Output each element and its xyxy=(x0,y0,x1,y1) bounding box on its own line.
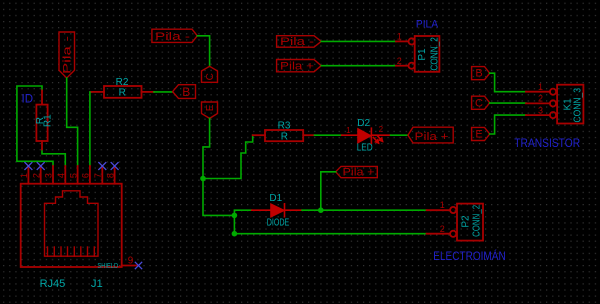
svg-text:B: B xyxy=(475,68,482,80)
svg-text:Pila -: Pila - xyxy=(155,31,190,43)
svg-text:RJ45: RJ45 xyxy=(40,278,66,290)
svg-text:ID: ID xyxy=(22,92,34,106)
global label Pila - (vertical, top-left) xyxy=(59,32,75,78)
svg-text:R3: R3 xyxy=(278,120,291,131)
connector J1 RJ45 xyxy=(21,166,138,267)
wire Pila - to C label xyxy=(197,36,209,67)
svg-text:1: 1 xyxy=(346,126,351,135)
wire C to K1 pin 2 xyxy=(490,102,526,104)
svg-text:R1: R1 xyxy=(43,114,54,127)
svg-text:E: E xyxy=(205,104,216,111)
global label Pila + (right of LED, pointing left) xyxy=(408,127,453,143)
svg-text:B: B xyxy=(182,85,190,99)
svg-text:LED: LED xyxy=(357,143,373,154)
wire R3 to D2 xyxy=(315,134,342,136)
svg-text:Pila +: Pila + xyxy=(280,60,314,72)
svg-text:2: 2 xyxy=(379,125,384,134)
wire Pila + to P1 pin 2 xyxy=(321,65,396,67)
svg-text:2: 2 xyxy=(31,173,41,178)
svg-text:R: R xyxy=(119,88,126,99)
global label Pila + (bottom, pointing left) xyxy=(336,166,378,177)
svg-text:4: 4 xyxy=(56,173,66,178)
svg-text:2: 2 xyxy=(397,56,402,66)
resistor R3 xyxy=(253,130,315,141)
svg-text:9: 9 xyxy=(128,256,134,267)
svg-text:D2: D2 xyxy=(357,118,370,129)
svg-text:2: 2 xyxy=(538,94,543,104)
svg-text:C: C xyxy=(205,73,216,80)
svg-text:P2: P2 xyxy=(461,215,472,228)
diode D2 LED xyxy=(342,128,391,143)
wire D2 to Pila + label xyxy=(391,134,408,136)
global label C (pointing up) xyxy=(202,66,218,82)
global label Pila - (pointing right, to P1 pin1) xyxy=(277,36,322,48)
global label Pila + (pointing right, to P1 pin2) xyxy=(277,60,322,72)
global label C (right side) xyxy=(472,96,490,109)
global label B (right side, pointing right) xyxy=(472,67,490,80)
svg-text:CONN_2: CONN_2 xyxy=(472,205,483,237)
wire junction to D1 anode xyxy=(234,210,251,215)
no-connect X on J1 pin 9 SHIELD xyxy=(135,262,141,268)
svg-text:CONN_2: CONN_2 xyxy=(429,37,440,71)
svg-text:1: 1 xyxy=(440,200,445,210)
wire junction down to bottom rail xyxy=(233,215,235,233)
no-connect X on J1 pin 8 xyxy=(111,163,118,170)
svg-text:SHIELD: SHIELD xyxy=(97,263,118,270)
connector P1 CONN_2 xyxy=(396,36,439,72)
wire E to K1 pin 3 xyxy=(490,115,526,134)
svg-text:DIODE: DIODE xyxy=(267,218,290,229)
wire D1 to P2 pin 1 xyxy=(302,209,427,211)
svg-text:Pila +: Pila + xyxy=(415,131,449,143)
wire R1 top loop to RJ45 pin 3 xyxy=(17,86,53,166)
svg-text:ELECTROIMÁN: ELECTROIMÁN xyxy=(433,248,505,263)
svg-text:P1: P1 xyxy=(417,48,428,61)
svg-text:D1: D1 xyxy=(269,193,282,204)
wire R1 bottom to RJ45 pin 4 xyxy=(42,149,65,165)
diode D1 xyxy=(252,204,302,217)
no-connect X on J1 pin 7 xyxy=(99,163,106,170)
global label Pila - (top middle, pointing right) xyxy=(152,29,197,42)
wire staircase junction to R3 xyxy=(203,135,253,178)
svg-text:1: 1 xyxy=(538,82,543,92)
wire R2 right to B label xyxy=(154,91,173,93)
svg-text:3: 3 xyxy=(44,173,54,178)
wire B to K1 pin 1 xyxy=(490,73,526,92)
svg-text:E: E xyxy=(475,129,482,141)
svg-text:TRANSISTOR: TRANSISTOR xyxy=(514,136,580,150)
svg-text:J1: J1 xyxy=(91,278,103,290)
svg-text:8: 8 xyxy=(105,173,115,178)
connector K1 CONN_3 xyxy=(526,85,583,124)
RJ45 inner jack outline xyxy=(45,191,99,256)
resistor R2 xyxy=(92,86,155,98)
global label B (left, pointing left) xyxy=(173,85,196,99)
no-connect X on J1 pin 2 xyxy=(37,163,44,170)
resistor R1 xyxy=(36,90,47,149)
svg-text:R2: R2 xyxy=(116,77,129,88)
connector P2 CONN_2 xyxy=(427,204,483,241)
svg-text:6: 6 xyxy=(81,173,91,178)
svg-text:Pila +: Pila + xyxy=(343,166,375,178)
svg-text:CONN_3: CONN_3 xyxy=(573,88,584,123)
svg-text:2: 2 xyxy=(440,224,445,234)
svg-text:PILA: PILA xyxy=(416,19,439,31)
wire R2 left down to RJ45 pin 6 xyxy=(90,92,92,166)
svg-text:R: R xyxy=(281,132,288,143)
svg-text:Pila -: Pila - xyxy=(280,36,314,48)
wire bottom rail to P2 pin 2 xyxy=(234,233,426,235)
junction node at 234.4,215.4 xyxy=(232,213,238,219)
svg-text:7: 7 xyxy=(93,173,103,178)
no-connect X on J1 pin 1 xyxy=(25,163,32,170)
wire Pila - to P1 pin 1 xyxy=(321,40,396,42)
svg-text:3: 3 xyxy=(538,105,543,115)
svg-text:1: 1 xyxy=(397,32,402,42)
svg-text:5: 5 xyxy=(68,173,78,178)
global label E (right side) xyxy=(472,127,490,140)
junction node at 320.8,210.2 xyxy=(318,207,324,213)
svg-text:Pila -: Pila - xyxy=(61,35,73,74)
svg-text:1: 1 xyxy=(19,173,29,178)
wire E label down-left to bottom junction xyxy=(203,118,234,215)
svg-text:C: C xyxy=(475,97,483,109)
wire Pila + down to junction xyxy=(321,172,336,210)
junction node at 203,178.5 xyxy=(200,176,206,182)
junction node at 234.4,233.7 xyxy=(232,231,238,237)
wire from Pila - label to RJ45 pin 5 xyxy=(67,78,78,166)
global label E (pointing down) xyxy=(202,102,218,118)
